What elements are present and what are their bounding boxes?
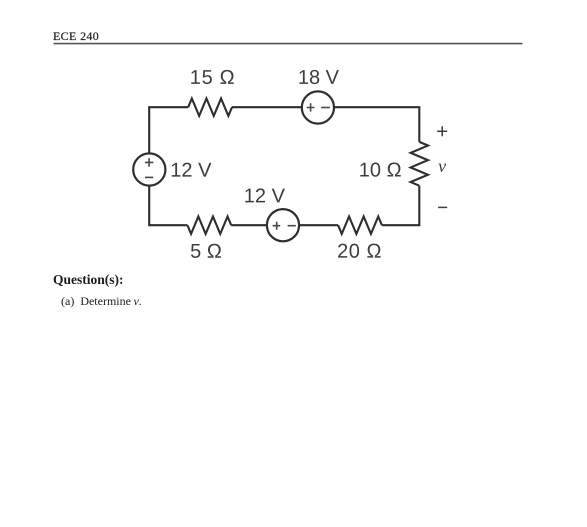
svg-text:12 V: 12 V: [244, 185, 286, 207]
svg-text:v: v: [438, 156, 446, 176]
v polarity plus mark: [437, 126, 447, 136]
voltage source V2 18 V (circle): [302, 91, 334, 123]
svg-text:15 Ω: 15 Ω: [190, 67, 236, 89]
resistor R2 5 ohm (zigzag, bottom wire): [187, 217, 231, 234]
header rule: [54, 43, 523, 45]
V3 plus sign: [273, 222, 281, 230]
wire: V2 to top-right corner, down to R4: [334, 107, 419, 142]
resistor R3 20 ohm (zigzag, bottom wire): [338, 217, 382, 234]
svg-text:20 Ω: 20 Ω: [337, 241, 382, 263]
svg-text:5 Ω: 5 Ω: [190, 241, 222, 263]
voltage source V1 12 V (circle, left wire): [133, 153, 165, 185]
V1 minus sign: [145, 176, 153, 178]
question heading: [53, 272, 124, 288]
V3 minus sign: [288, 225, 296, 227]
wire: top-left segment (corner to R1): [149, 107, 188, 153]
part (a) prompt: [61, 294, 142, 309]
wire: R3 to V3 (bottom 12 V source): [299, 224, 338, 226]
v polarity minus mark: [438, 206, 447, 208]
V1 plus sign: [145, 158, 153, 167]
header course label "ECE 240": [53, 29, 99, 44]
voltage source V3 12 V (circle, bottom wire): [267, 209, 299, 241]
wire: R4 to bottom-right corner to R3: [382, 186, 419, 226]
resistor R4 10 ohm (zigzag, right wire): [411, 142, 428, 186]
V2 minus sign: [321, 107, 330, 109]
V2 plus sign: [307, 103, 315, 111]
wire: V3 to R2 (5 ohm): [231, 224, 267, 226]
resistor R1 15 ohm (zigzag, top wire): [188, 99, 232, 116]
svg-text:18 V: 18 V: [298, 67, 340, 89]
svg-text:10 Ω: 10 Ω: [359, 159, 402, 181]
wire: R1 to V2 (18 V source): [232, 106, 302, 108]
wire: R2 to bottom-left corner, up to V1: [149, 186, 187, 226]
svg-text:12 V: 12 V: [170, 160, 212, 182]
